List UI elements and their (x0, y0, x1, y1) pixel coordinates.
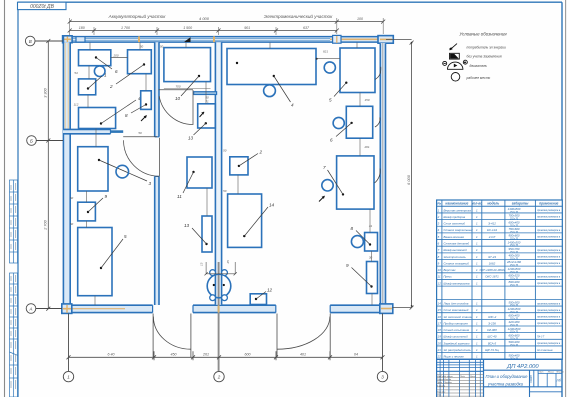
machine E18 (346, 262, 378, 294)
svg-text:10: 10 (438, 268, 442, 272)
svg-text:16: 16 (438, 315, 442, 319)
machine E3 (79, 96, 142, 129)
svg-text:50: 50 (70, 196, 74, 200)
svg-text:Шкаф приборов: Шкаф приборов (444, 215, 466, 219)
svg-text:180: 180 (79, 26, 85, 30)
svg-text:Эл распределитель: Эл распределитель (444, 348, 472, 352)
bottom wall segment left (63, 305, 153, 313)
svg-text:привязка размеров в: привязка размеров в (537, 236, 561, 239)
svg-text:3: 3 (149, 181, 152, 186)
svg-text:Аккумуляторный участок: Аккумуляторный участок (108, 13, 167, 19)
machine E12 narrow (184, 216, 212, 252)
consumer arrow near C6 (319, 196, 325, 202)
svg-text:А: А (28, 307, 32, 312)
svg-text:Электромеханический участок: Электромеханический участок (264, 13, 333, 19)
svg-text:1200х800: 1200х800 (508, 327, 521, 331)
svg-text:261: 261 (202, 353, 209, 357)
svg-text:400х300: 400х300 (508, 254, 519, 258)
svg-text:700х500: 700х500 (508, 214, 519, 218)
svg-text:21: 21 (437, 348, 442, 352)
table header text (437, 202, 558, 206)
workplace circle C5 (333, 117, 344, 128)
svg-text:ШС-40: ШС-40 (488, 335, 497, 339)
svg-text:привязка размеров в: привязка размеров в (537, 209, 561, 212)
svg-text:50: 50 (138, 131, 142, 135)
svg-text:14: 14 (438, 302, 442, 306)
svg-text:1400х500: 1400х500 (508, 240, 521, 244)
bottom dimension line (67, 351, 385, 360)
svg-text:ВСА-5: ВСА-5 (488, 341, 497, 345)
svg-text:54: 54 (74, 71, 78, 75)
svg-text:20: 20 (437, 341, 442, 345)
svg-text:Лит: Лит (538, 372, 544, 374)
workplace circle C7 (351, 236, 363, 248)
axis circle Б mid-left (27, 136, 63, 146)
svg-text:18: 18 (438, 328, 442, 332)
axis circle B top-left (25, 36, 63, 46)
svg-text:Дата: Дата (469, 376, 476, 378)
svg-text:ЭТ-24: ЭТ-24 (488, 255, 496, 259)
svg-text:привязка размеров в: привязка размеров в (537, 342, 561, 345)
svg-text:450: 450 (171, 353, 177, 357)
svg-text:Эл заточной станок: Эл заточной станок (444, 315, 473, 319)
tan column mark x214 (213, 36, 215, 42)
svg-text:800х400: 800х400 (508, 280, 519, 284)
svg-text:модель: модель (487, 202, 499, 206)
svg-text:привязка размеров в: привязка размеров в (537, 282, 561, 285)
svg-text:4: 4 (291, 103, 294, 108)
svg-text:6: 6 (330, 138, 333, 143)
svg-text:5: 5 (329, 98, 332, 103)
svg-text:Шкаф вытяжной: Шкаф вытяжной (444, 248, 468, 252)
svg-text:движатель: движатель (470, 64, 488, 68)
big machine E4b right room top (227, 49, 316, 108)
svg-text:900х600: 900х600 (508, 234, 519, 238)
svg-text:Иванов: Иванов (444, 379, 452, 381)
machine E20 right room left side (230, 150, 263, 175)
svg-text:Условные обозначения: Условные обозначения (459, 32, 507, 37)
machine E6 room2 (78, 147, 152, 191)
tan window strip right part (330, 38, 387, 40)
machine E10 (188, 104, 215, 141)
svg-text:30: 30 (369, 256, 373, 260)
svg-text:Ларь для отходов: Ларь для отходов (443, 302, 469, 306)
bottom wall segment middle (193, 305, 276, 313)
svg-text:Стол заточной: Стол заточной (444, 222, 466, 226)
svg-text:привязка размеров в: привязка размеров в (537, 256, 561, 259)
svg-text:6: 6 (115, 69, 118, 74)
svg-text:потребитель эл энергии: потребитель эл энергии (467, 45, 507, 49)
workplace circle C3 (264, 85, 276, 97)
svg-text:11: 11 (177, 194, 182, 199)
svg-text:Пресс: Пресс (444, 275, 453, 279)
svg-text:№ докум: № докум (444, 375, 453, 378)
svg-text:11: 11 (438, 275, 441, 279)
svg-text:ДП 4Р2.000: ДП 4Р2.000 (506, 364, 539, 370)
top wall band (63, 35, 387, 43)
svg-text:Петров: Петров (444, 382, 453, 384)
left margin table text marks (11, 183, 16, 389)
svg-text:Эл станочные: Эл станочные (537, 350, 553, 352)
workplace circle C1 (94, 66, 105, 77)
svg-text:Б: Б (30, 139, 33, 144)
svg-text:7: 7 (323, 165, 326, 170)
interior wall 2 (215, 42, 221, 371)
svg-text:Лист: Лист (529, 374, 533, 384)
svg-text:6 40: 6 40 (108, 353, 115, 357)
svg-text:Шкаф сушильный: Шкаф сушильный (444, 335, 469, 339)
lintel above corridor door (194, 92, 217, 95)
svg-text:2: 2 (437, 215, 440, 219)
svg-text:8: 8 (351, 226, 354, 231)
bottom wall segment right (330, 305, 392, 313)
svg-text:НС-12А: НС-12А (487, 228, 497, 232)
svg-text:ПА-3 Т: ПА-3 Т (537, 336, 545, 339)
svg-text:420х300: 420х300 (508, 320, 519, 324)
legend distribution box (450, 53, 460, 59)
svg-text:Электротигель: Электротигель (444, 255, 467, 259)
machine E2 (79, 73, 108, 95)
left grid upper rows (437, 361, 484, 363)
machine E7 (78, 194, 108, 221)
svg-text:Шкаф материалов: Шкаф материалов (444, 281, 470, 285)
svg-text:Т контр: Т контр (437, 385, 446, 387)
svg-text:1: 1 (104, 73, 107, 78)
svg-text:ЩР-74 Зщ: ЩР-74 Зщ (485, 348, 499, 352)
workplace circle C6 (322, 180, 333, 191)
top dimension line A (68, 20, 386, 24)
svg-text:привязка размеров в: привязка размеров в (537, 216, 561, 219)
svg-text:В: В (29, 39, 32, 44)
svg-text:500х500: 500х500 (508, 300, 519, 304)
svg-text:Подп: Подп (460, 375, 466, 378)
svg-text:2-СЛ: 2-СЛ (488, 235, 496, 239)
svg-text:ОРГ-1468-01-060А: ОРГ-1468-01-060А (479, 268, 504, 272)
machine E17 (351, 226, 378, 251)
svg-text:6 000: 6 000 (406, 174, 411, 185)
svg-text:50: 50 (223, 189, 227, 193)
interior wall 1 lower (155, 176, 159, 305)
svg-text:9: 9 (105, 194, 108, 199)
svg-text:04: 04 (354, 353, 358, 357)
svg-text:12: 12 (438, 281, 442, 285)
svg-text:2: 2 (259, 150, 263, 155)
svg-text:261: 261 (363, 145, 369, 149)
left grid verticals (439, 359, 441, 397)
svg-text:Масшт: Масшт (557, 372, 565, 374)
small machine E13 on bottom wall (250, 288, 272, 305)
equipment connector dim chains (87, 43, 373, 306)
svg-text:901: 901 (244, 26, 250, 30)
svg-text:Э-236: Э-236 (488, 321, 496, 325)
legend motor symbol (443, 60, 468, 69)
svg-text:Прибор контроля: Прибор контроля (444, 321, 469, 325)
left wall band (63, 37, 71, 313)
svg-text:50: 50 (70, 222, 74, 226)
machine E5 (125, 91, 151, 118)
svg-text:14: 14 (269, 203, 275, 208)
svg-text:780х600: 780х600 (508, 227, 519, 231)
svg-text:ОКС-1671: ОКС-1671 (485, 275, 499, 279)
svg-text:Стол монтажный: Стол монтажный (444, 308, 469, 312)
left vertical dimension line (46, 39, 50, 311)
svg-text:участка разводки: участка разводки (487, 381, 524, 386)
svg-text:50: 50 (140, 45, 144, 49)
svg-text:17: 17 (438, 321, 442, 325)
svg-text:600: 600 (245, 353, 251, 357)
svg-text:821: 821 (323, 50, 328, 54)
svg-text:План и оборудование: План и оборудование (485, 374, 528, 379)
left margin table block 2 (10, 273, 18, 397)
svg-text:252х 70: 252х 70 (509, 285, 519, 287)
svg-text:привязка размеров в: привязка размеров в (537, 249, 561, 252)
header bottom (437, 205, 563, 207)
svg-text:ЭЗС-2: ЭЗС-2 (488, 315, 497, 319)
small gap dimension labels (70, 45, 373, 260)
svg-text:кол-во: кол-во (472, 202, 482, 206)
svg-text:4 000: 4 000 (199, 16, 210, 21)
left grid lower rows gray (437, 374, 484, 396)
svg-text:50: 50 (160, 45, 164, 49)
machine E19 (228, 194, 275, 247)
round machine M (200, 260, 237, 301)
table body text (437, 207, 561, 360)
machine E16 (323, 156, 380, 209)
legend consumer arrow (449, 44, 457, 51)
workplace circle C4 (324, 62, 335, 73)
svg-text:Масса: Масса (548, 372, 555, 374)
svg-text:1 700: 1 700 (121, 26, 130, 30)
svg-text:привязка размеров в: привязка размеров в (537, 262, 561, 265)
svg-text:100: 100 (357, 17, 363, 21)
svg-text:привязка размеров в: привязка размеров в (537, 316, 561, 319)
svg-text:50: 50 (223, 149, 227, 153)
svg-text:Н контр: Н контр (437, 392, 446, 394)
svg-text:2: 2 (109, 84, 113, 89)
svg-text:привязка размеров в: привязка размеров в (537, 276, 561, 279)
svg-text:1400х800: 1400х800 (508, 207, 521, 211)
svg-text:2812х1166: 2812х1166 (506, 260, 521, 264)
svg-text:№: № (437, 202, 441, 206)
svg-text:150: 150 (364, 98, 369, 102)
machine E9 middle room top (164, 48, 211, 101)
svg-text:рабочее место: рабочее место (466, 76, 491, 80)
svg-text:Зарядный агрегат: Зарядный агрегат (444, 341, 470, 345)
svg-text:Верстак электрика: Верстак электрика (444, 208, 472, 212)
svg-text:13: 13 (184, 223, 190, 228)
svg-text:13: 13 (200, 262, 204, 266)
svg-text:500х400: 500х400 (508, 353, 519, 357)
corner stamp box (18, 2, 67, 10)
svg-text:2 700: 2 700 (44, 219, 48, 230)
svg-text:500х400: 500х400 (508, 340, 519, 344)
interior horizontal wall left section (63, 129, 123, 133)
svg-text:13: 13 (188, 136, 194, 141)
verticals (441, 200, 443, 359)
svg-text:401: 401 (300, 353, 306, 357)
svg-text:Ящик с песком: Ящик с песком (443, 355, 464, 359)
axis circle A bottom-left (26, 304, 62, 314)
tan column mark x139 (138, 36, 140, 42)
svg-text:112: 112 (74, 103, 79, 107)
machine E15 (330, 106, 380, 142)
left grid text smudges (437, 375, 476, 397)
svg-text:19: 19 (438, 335, 442, 339)
svg-text:252х 70: 252х 70 (509, 345, 519, 347)
top-right corner column (378, 36, 393, 44)
paper right edge (565, 0, 567, 397)
bottom-left corner column (62, 304, 72, 314)
svg-text:200: 200 (112, 53, 118, 57)
svg-text:Станок сверлильный: Станок сверлильный (444, 228, 474, 232)
top extension lines (70, 18, 384, 35)
bottom axis circle 1 (63, 314, 73, 382)
svg-text:1 500: 1 500 (183, 26, 192, 30)
top-left corner column (63, 36, 73, 43)
svg-text:габариты: габариты (512, 202, 529, 206)
svg-text:600х400: 600х400 (508, 220, 519, 224)
consumer arrow in E10 (200, 112, 205, 117)
svg-text:22: 22 (437, 355, 442, 359)
svg-text:1200х800: 1200х800 (508, 307, 521, 311)
svg-text:привязка размеров в: привязка размеров в (537, 322, 561, 325)
consumer arrow near E3 (141, 115, 147, 121)
bottom axis circle 2 (214, 371, 224, 381)
door corridor top: leaf lines and swing arc (159, 90, 193, 125)
svg-text:25: 25 (226, 260, 230, 265)
svg-text:привязка размеров в: привязка размеров в (537, 229, 561, 232)
machine E11 (177, 157, 212, 199)
svg-text:12: 12 (267, 288, 273, 293)
machine E1 room1 (79, 50, 119, 74)
svg-text:привязка размеров в: привязка размеров в (537, 309, 561, 312)
left margin table block 1 (10, 180, 18, 263)
svg-text:Ванна моечная: Ванна моечная (444, 235, 465, 239)
svg-text:1200х800: 1200х800 (508, 267, 521, 271)
svg-text:1К62: 1К62 (489, 261, 496, 265)
legend workplace circle (451, 73, 460, 82)
top dimension line B (68, 29, 339, 33)
svg-text:Станок токарный: Станок токарный (444, 261, 470, 265)
svg-text:600х400: 600х400 (508, 314, 519, 318)
svg-text:8: 8 (125, 113, 128, 118)
svg-text:наименование: наименование (445, 202, 468, 206)
svg-text:без учета Заземления: без учета Заземления (467, 55, 502, 59)
svg-text:применение: применение (539, 202, 559, 206)
svg-text:Верстак: Верстак (444, 268, 457, 272)
svg-text:привязка размеров в: привязка размеров в (537, 302, 561, 305)
door bottom-middle: swing arc outside (277, 314, 330, 358)
svg-text:600х600: 600х600 (508, 334, 519, 338)
svg-text:000Z0t ДВ: 000Z0t ДВ (30, 4, 54, 10)
svg-text:637: 637 (303, 26, 310, 30)
door bottom-left: swing arc outside (153, 314, 191, 358)
black triangle marker in top wall (184, 37, 191, 42)
svg-text:3 300: 3 300 (44, 87, 48, 97)
svg-text:2: 2 (217, 375, 221, 380)
table row lines (437, 213, 563, 353)
svg-text:Э-412: Э-412 (488, 222, 496, 226)
interior wall 1 upper (155, 42, 159, 137)
machine E8 tall (78, 228, 127, 296)
svg-text:10: 10 (175, 96, 181, 101)
svg-text:Стенд испытания: Стенд испытания (444, 328, 470, 332)
machine E4 (109, 50, 151, 89)
right wall band (380, 43, 385, 305)
svg-text:600х520: 600х520 (508, 274, 519, 278)
bottom-right corner column (380, 304, 393, 314)
machine E14 (329, 48, 381, 103)
svg-text:9: 9 (346, 263, 349, 268)
bottom axis circle 3 (377, 314, 387, 382)
svg-text:950х700: 950х700 (508, 247, 519, 251)
svg-text:5: 5 (124, 234, 127, 239)
svg-text:Стеллаж деталей: Стеллаж деталей (444, 242, 470, 246)
door left room divider: swing arc (123, 137, 159, 177)
paper left edge (4, 0, 6, 397)
svg-text:700: 700 (175, 85, 180, 89)
svg-text:15: 15 (438, 308, 442, 312)
svg-text:41: 41 (369, 224, 373, 228)
svg-text:КИ-968: КИ-968 (487, 328, 497, 332)
right vertical dimension 6000 (386, 39, 414, 309)
top wall small pier at x79 (76, 37, 85, 43)
workplace circle C2 (116, 165, 129, 178)
